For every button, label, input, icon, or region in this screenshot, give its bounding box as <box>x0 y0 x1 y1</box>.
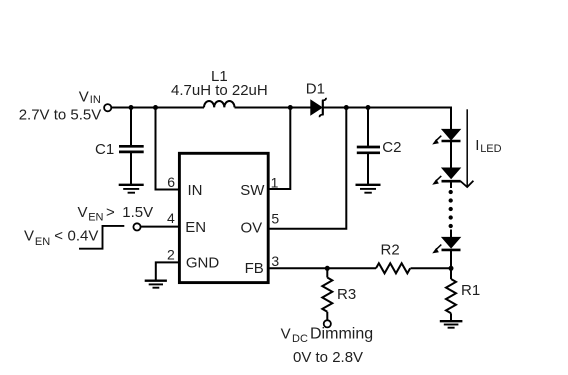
svg-text:R2: R2 <box>381 242 400 259</box>
svg-text:0.4V: 0.4V <box>68 228 99 245</box>
svg-text:EN: EN <box>35 236 50 248</box>
svg-text:0V to 2.8V: 0V to 2.8V <box>293 349 363 366</box>
svg-text:I: I <box>475 137 479 154</box>
svg-text:D1: D1 <box>306 80 325 97</box>
svg-text:GND: GND <box>186 255 220 272</box>
svg-text:FB: FB <box>245 260 264 277</box>
svg-text:6: 6 <box>167 174 175 190</box>
svg-text:R1: R1 <box>461 282 480 299</box>
svg-text:EN: EN <box>88 212 103 224</box>
svg-text:4.7uH to 22uH: 4.7uH to 22uH <box>171 82 268 99</box>
svg-text:R3: R3 <box>337 286 356 303</box>
svg-text:C1: C1 <box>95 141 114 158</box>
svg-text:LED: LED <box>480 143 501 155</box>
svg-text:SW: SW <box>240 182 265 199</box>
svg-text:1: 1 <box>271 174 279 190</box>
svg-text:<: < <box>54 228 63 245</box>
svg-text:1.5V: 1.5V <box>122 204 153 221</box>
svg-text:2.7V to 5.5V: 2.7V to 5.5V <box>19 106 102 123</box>
svg-text:EN: EN <box>185 219 206 236</box>
svg-text:C2: C2 <box>382 139 401 156</box>
svg-text:>: > <box>106 204 115 221</box>
svg-text:V: V <box>281 325 291 342</box>
svg-text:2: 2 <box>167 246 175 262</box>
svg-text:IN: IN <box>188 182 203 199</box>
svg-text:4: 4 <box>167 210 175 226</box>
svg-text:V: V <box>24 228 34 245</box>
svg-text:V: V <box>78 204 88 221</box>
svg-text:IN: IN <box>90 94 101 106</box>
svg-text:Dimming: Dimming <box>310 325 373 342</box>
svg-text:OV: OV <box>241 220 263 237</box>
svg-text:5: 5 <box>271 211 279 227</box>
svg-text:3: 3 <box>271 253 279 269</box>
svg-text:DC: DC <box>292 333 308 345</box>
svg-text:V: V <box>79 88 89 105</box>
